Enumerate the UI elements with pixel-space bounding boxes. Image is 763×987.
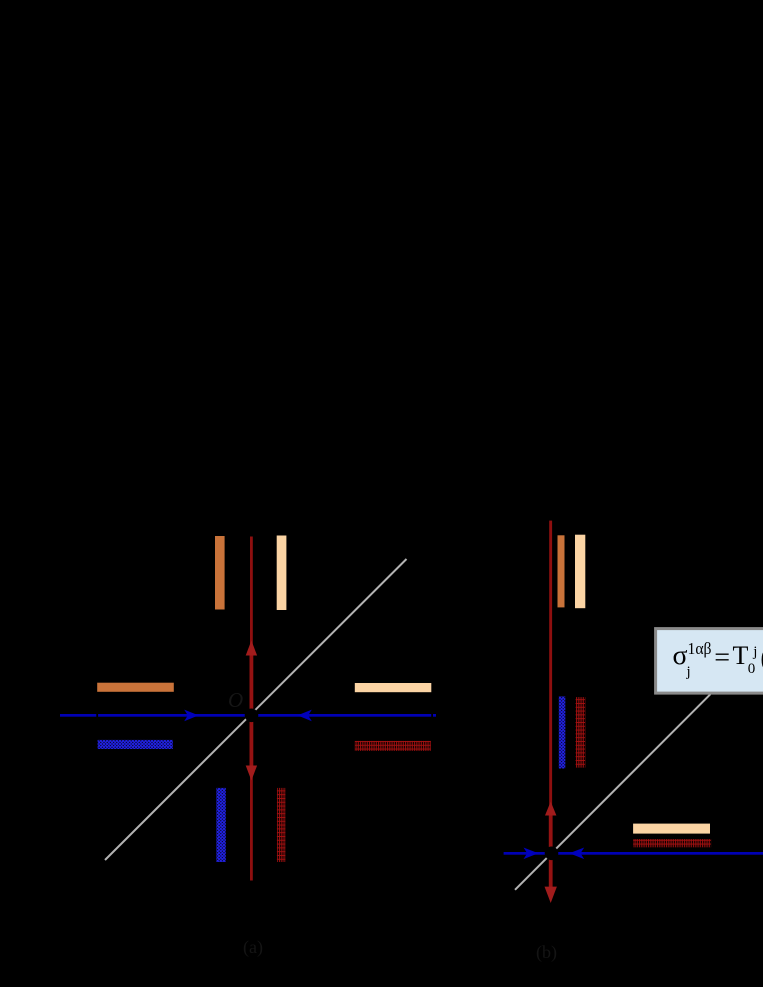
bottom tan bar (right panel) [633, 824, 710, 834]
svg-text:=: = [714, 643, 730, 674]
bottom-left blue hatched bar (left panel) [216, 788, 225, 862]
svg-text:j: j [686, 664, 691, 680]
mid red hatched bar (right panel) [576, 697, 586, 768]
bottom-right red hatched bar (left panel) [277, 788, 286, 862]
svg-text:j: j [752, 644, 757, 660]
formula box frame [656, 629, 763, 694]
gray diagonal line (right panel) [515, 694, 710, 890]
gap in blue axis at box edge left [96, 714, 98, 718]
mid-right red hatched bar (left panel) [355, 741, 431, 751]
red up arrowhead (left panel) [246, 641, 257, 656]
bottom red hatched bar (right panel) [633, 839, 711, 847]
top tan bar (right panel) [575, 535, 585, 609]
blue left-pointing arrowhead (right panel) [569, 848, 584, 860]
svg-text:O: O [228, 688, 243, 712]
thick red shaft between arrows (right panel) [549, 812, 553, 888]
mid-right tan bar (left panel) [355, 683, 432, 692]
top-right tan bar (left panel) [277, 536, 287, 611]
mid-left blue hatched bar (left panel) [98, 740, 173, 749]
horizontal blue axis (right panel) [504, 852, 763, 855]
svg-text:T: T [733, 641, 749, 670]
mid-left orange bar (left panel) [97, 683, 174, 692]
gray diagonal line (left panel) [105, 559, 407, 860]
svg-text:1αβ: 1αβ [688, 639, 712, 658]
horizontal blue axis (left panel) [60, 714, 436, 717]
svg-text:(b): (b) [536, 942, 557, 963]
center dot O (right panel) [545, 847, 559, 861]
mid blue hatched bar (right panel) [559, 697, 566, 769]
vertical dark red axis (right panel) [549, 521, 552, 854]
thick red shaft between arrows (left panel) [250, 652, 254, 772]
gap in blue axis at box edge right [431, 714, 433, 718]
red up arrowhead (right panel) [545, 802, 556, 816]
blue left-pointing arrowhead (left panel) [298, 710, 312, 722]
red down arrowhead (right panel) [545, 887, 557, 903]
center dot O (left panel) [245, 709, 259, 723]
svg-text:0: 0 [748, 661, 756, 677]
blue right-pointing arrowhead (right panel) [524, 848, 539, 860]
red down arrowhead (left panel) [246, 766, 257, 781]
blue right-pointing arrowhead (left panel) [184, 710, 198, 722]
vertical dark red axis (left panel) [250, 537, 253, 881]
svg-text:(a): (a) [243, 937, 263, 958]
top orange bar (right panel) [558, 535, 565, 607]
top-left orange bar (left panel) [215, 536, 225, 610]
